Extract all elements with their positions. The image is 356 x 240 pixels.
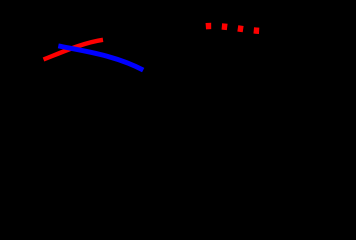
- blue solid curve (crosses over red): [58, 46, 143, 70]
- red dashed curve (upper-right branch): [206, 26, 260, 31]
- red solid curve (lower-left branch): [44, 40, 104, 60]
